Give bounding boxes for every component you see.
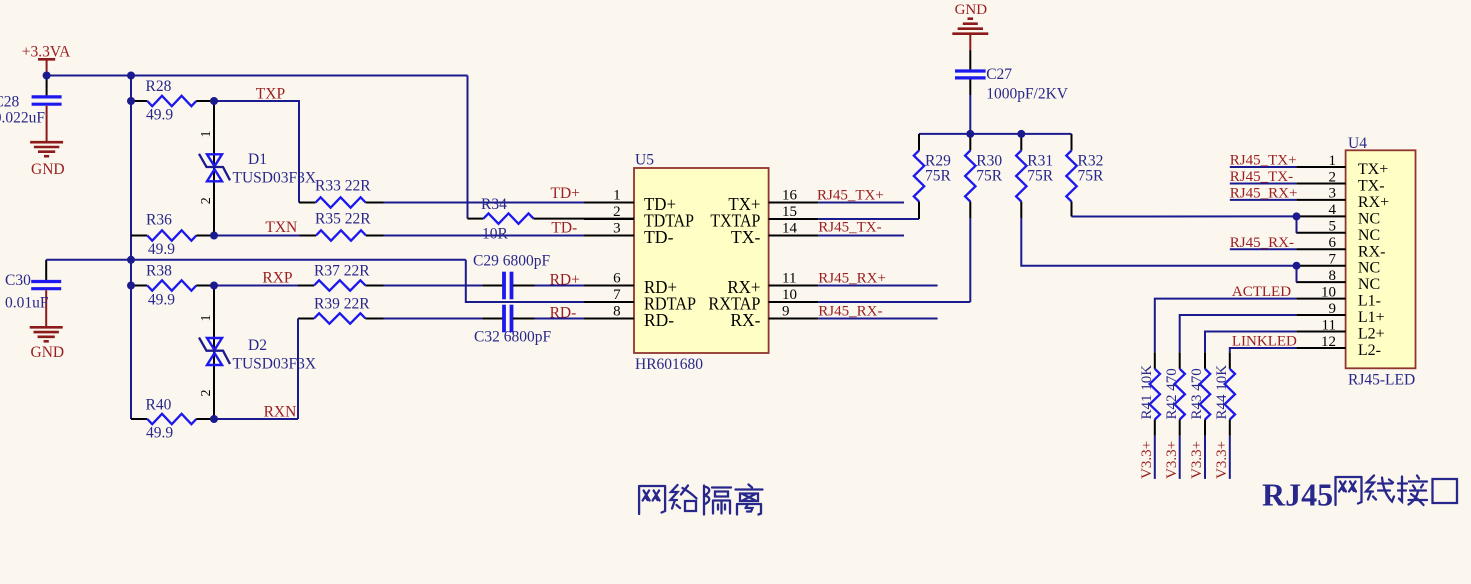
U5 pin 7 RDTAP — [584, 301, 634, 303]
svg-text:R38: R38 — [146, 262, 172, 279]
svg-text:14: 14 — [782, 220, 798, 236]
svg-text:TX-: TX- — [731, 227, 761, 247]
svg-text:R40: R40 — [146, 396, 172, 413]
svg-text:75R: 75R — [976, 168, 1003, 185]
svg-text:RXN: RXN — [264, 403, 297, 420]
svg-text:NC: NC — [1358, 210, 1380, 227]
U4 pin 7 NC — [1296, 265, 1345, 267]
svg-text:L1+: L1+ — [1358, 309, 1385, 326]
svg-text:RJ45_RX-: RJ45_RX- — [818, 303, 882, 319]
node RXN junction — [210, 415, 218, 423]
svg-text:RJ45_RX+: RJ45_RX+ — [818, 270, 886, 286]
capacitor C30 0.01uF — [45, 260, 47, 280]
svg-text:RJ45_TX-: RJ45_TX- — [818, 219, 881, 235]
svg-text:6: 6 — [1329, 235, 1337, 251]
U4 pin 2 TX- — [1296, 182, 1345, 184]
U5 pin 2 TDTAP — [584, 218, 634, 220]
U5 pin 10 RXTAP — [769, 301, 819, 303]
svg-text:C29 6800pF: C29 6800pF — [473, 253, 550, 270]
svg-text:2: 2 — [199, 390, 214, 397]
wire+node RJ45_RX- at U4 — [1230, 248, 1296, 250]
wire left vertical trunk — [130, 76, 132, 420]
svg-text:TX-: TX- — [1358, 177, 1385, 194]
resistor R29 75R — [918, 134, 920, 151]
svg-text:RX-: RX- — [730, 310, 760, 330]
svg-text:GND: GND — [31, 161, 65, 178]
node top wire / left trunk junction — [127, 72, 135, 80]
svg-text:1: 1 — [613, 187, 621, 203]
wire RJ45_RX- — [818, 318, 937, 320]
wire RXN riser — [297, 319, 299, 420]
svg-text:R34: R34 — [481, 196, 507, 213]
svg-text:L2+: L2+ — [1358, 326, 1385, 343]
wire RD- row — [384, 318, 483, 320]
resistor R33 22R — [299, 202, 316, 204]
node R38 left junction — [127, 282, 135, 290]
U5 pin 1 TD+ — [584, 201, 634, 203]
node +3.3VA / C28 junction — [43, 72, 51, 80]
wire ACTLED — [1155, 299, 1296, 353]
wire TD- — [384, 235, 585, 237]
svg-text:TUSD03F3X: TUSD03F3X — [233, 355, 317, 372]
power V3.3+ for R43 — [1204, 436, 1206, 479]
svg-text:10: 10 — [1321, 284, 1336, 300]
svg-text:RJ45: RJ45 — [1262, 477, 1333, 513]
ground GND under C28 — [30, 141, 63, 144]
U5 pin 15 TXTAP — [769, 218, 819, 220]
resistor R44 10K — [1229, 352, 1231, 369]
svg-text:5: 5 — [1329, 219, 1337, 235]
node TXP junction — [210, 97, 218, 105]
svg-text:2: 2 — [199, 197, 214, 204]
U5 pin 6 RD+ — [584, 284, 634, 286]
U4 pin 8 NC — [1296, 281, 1345, 283]
svg-text:12: 12 — [1321, 334, 1336, 350]
resistor R36 49.9 — [131, 235, 147, 237]
svg-text:49.9: 49.9 — [146, 425, 173, 442]
U4 pin 10 L1- — [1296, 298, 1345, 300]
U5 pin 14 TX- — [769, 234, 819, 236]
transistor D1 TVS diode TUSD03F3X — [213, 101, 215, 236]
svg-text:1: 1 — [1329, 153, 1337, 169]
svg-text:75R: 75R — [925, 168, 952, 185]
U5 pin 11 RX+ — [769, 284, 819, 286]
svg-text:1: 1 — [199, 131, 214, 138]
svg-text:RD+: RD+ — [550, 271, 580, 288]
svg-text:9: 9 — [1329, 301, 1337, 317]
resistor R37 22R — [298, 285, 314, 287]
wire TXP to R33 — [214, 101, 299, 203]
U4 pin 5 NC — [1296, 232, 1345, 234]
IC U5 ethernet transformer HR601680 — [634, 168, 769, 353]
svg-text:C30: C30 — [5, 272, 31, 289]
wire RXN — [214, 418, 298, 420]
svg-text:75R: 75R — [1078, 168, 1105, 185]
svg-text:RJ45_TX+: RJ45_TX+ — [817, 188, 884, 204]
resistor R28 49.9 — [131, 100, 147, 102]
svg-text:R36: R36 — [146, 211, 172, 228]
svg-text:C32 6800pF: C32 6800pF — [474, 329, 551, 346]
wire RJ45_TX+ — [818, 202, 904, 204]
svg-text:2: 2 — [613, 204, 621, 220]
svg-text:RD-: RD- — [550, 304, 577, 321]
svg-text:V3.3+: V3.3+ — [1139, 441, 1155, 479]
power V3.3+ for R41 — [1154, 436, 1156, 479]
U4 pin 12 L2- — [1296, 347, 1345, 349]
svg-text:NC: NC — [1358, 260, 1380, 277]
svg-text:R39 22R: R39 22R — [314, 296, 370, 313]
transistor D2 TVS diode TUSD03F3X — [213, 286, 215, 420]
resistor R31 75R — [1020, 134, 1022, 151]
svg-text:R28: R28 — [146, 78, 172, 95]
U4 pin 6 RX- — [1296, 248, 1345, 250]
svg-text:49.9: 49.9 — [148, 292, 175, 309]
resistor R34 10R — [467, 76, 469, 219]
wire+node RJ45_TX- at U4 — [1230, 182, 1296, 184]
wire LINKLED — [1230, 348, 1296, 352]
capacitor C29 6800pF — [482, 285, 503, 287]
svg-text:1: 1 — [199, 315, 214, 322]
svg-text:TUSD03F3X: TUSD03F3X — [233, 169, 317, 186]
svg-text:49.9: 49.9 — [148, 241, 175, 258]
svg-text:0.01uF: 0.01uF — [5, 295, 49, 312]
svg-text:4: 4 — [1329, 202, 1337, 218]
resistor R35 22R — [300, 235, 317, 237]
svg-text:NC: NC — [1358, 276, 1380, 293]
wire C30 to RDTAP — [46, 259, 466, 261]
wire+node RJ45_TX+ at U4 — [1230, 166, 1296, 168]
capacitor C32 6800pF — [482, 318, 503, 320]
wire+node RJ45_RX+ at U4 — [1230, 199, 1296, 201]
wire TD+ — [384, 202, 585, 204]
svg-text:1000pF/2KV: 1000pF/2KV — [986, 86, 1069, 103]
svg-text:L2-: L2- — [1358, 342, 1381, 359]
node R31 / termination bus junction — [1017, 130, 1025, 138]
resistor R30 75R — [969, 134, 971, 151]
resistor R39 22R — [298, 318, 314, 320]
svg-text:TD+: TD+ — [551, 185, 580, 202]
svg-text:RJ45_TX-: RJ45_TX- — [1230, 169, 1293, 185]
connector U4 RJ45-LED body — [1346, 150, 1416, 368]
svg-text:15: 15 — [782, 204, 797, 220]
wire TXTAP to R29 — [818, 218, 919, 220]
ground GND under C30 — [30, 326, 63, 329]
wire RJ45_TX- — [818, 235, 904, 237]
wire L2+ to R43 — [1205, 332, 1296, 353]
caption network isolation (Chinese) — [639, 485, 762, 515]
svg-text:NC: NC — [1358, 227, 1380, 244]
svg-text:2: 2 — [1329, 169, 1337, 185]
svg-text:10: 10 — [782, 287, 797, 303]
svg-text:6: 6 — [613, 270, 621, 286]
node U4 pins 7-8 junction — [1293, 262, 1301, 270]
svg-text:RXP: RXP — [262, 270, 292, 287]
svg-text:R37 22R: R37 22R — [314, 263, 370, 280]
U4 pin 11 L2+ — [1296, 331, 1345, 333]
svg-text:TXN: TXN — [265, 219, 297, 236]
svg-text:RJ45_TX+: RJ45_TX+ — [1230, 153, 1297, 169]
wire R32 to U4 pins 4,5 — [1072, 215, 1297, 217]
svg-text:7: 7 — [1329, 252, 1337, 268]
wire RJ45_RX+ — [818, 285, 937, 287]
svg-text:U4: U4 — [1348, 135, 1367, 152]
U4 pin 4 NC — [1296, 215, 1345, 217]
svg-text:10R: 10R — [482, 225, 509, 242]
U4 pin 9 L1+ — [1296, 314, 1345, 316]
wire L1+ to R42 — [1180, 315, 1297, 352]
svg-text:ACTLED: ACTLED — [1232, 284, 1291, 300]
wire R31 to U4 pins 7,8 — [1021, 218, 1296, 266]
svg-text:C28: C28 — [0, 94, 20, 111]
resistor R32 75R — [1071, 134, 1073, 151]
wire RXP — [214, 285, 298, 287]
U4 pin 1 TX+ — [1296, 166, 1345, 168]
power V3.3+ for R42 — [1179, 436, 1181, 479]
svg-text:9: 9 — [782, 303, 790, 319]
svg-text:U5: U5 — [635, 152, 654, 169]
wire termination bus — [919, 133, 1072, 135]
svg-text:3: 3 — [613, 220, 621, 236]
node R28 left junction — [127, 97, 135, 105]
resistor R38 49.9 — [131, 285, 147, 287]
svg-text:TX+: TX+ — [1358, 161, 1388, 178]
wire top horizontal from +3.3VA to R34 drop — [47, 75, 468, 77]
svg-text:D2: D2 — [248, 337, 267, 354]
U5 pin 3 TD- — [584, 234, 634, 236]
svg-text:R42 470: R42 470 — [1164, 368, 1180, 419]
svg-text:R44 10K: R44 10K — [1214, 365, 1230, 420]
svg-text:R33 22R: R33 22R — [315, 178, 371, 195]
svg-text:R35 22R: R35 22R — [315, 211, 371, 228]
svg-text:RJ45_RX+: RJ45_RX+ — [1230, 185, 1298, 201]
svg-text:7: 7 — [613, 287, 621, 303]
svg-text:RX+: RX+ — [1358, 194, 1389, 211]
svg-text:3: 3 — [1329, 186, 1337, 202]
capacitor C27 1000pF/2KV — [969, 50, 971, 70]
svg-text:GND: GND — [31, 344, 65, 361]
node U4 pins 4-5 junction — [1293, 212, 1301, 220]
svg-text:0.022uF: 0.022uF — [0, 110, 45, 127]
svg-text:V3.3+: V3.3+ — [1164, 441, 1180, 479]
resistor R42 470 — [1179, 352, 1181, 369]
svg-text:LINKLED: LINKLED — [1232, 333, 1297, 349]
wire TXN — [214, 235, 300, 237]
svg-text:C27: C27 — [986, 66, 1012, 83]
svg-text:R43 470: R43 470 — [1189, 368, 1205, 419]
svg-text:8: 8 — [613, 303, 621, 319]
svg-text:HR601680: HR601680 — [635, 356, 703, 373]
node C27 / termination bus junction — [966, 130, 974, 138]
svg-text:+3.3VA: +3.3VA — [22, 43, 71, 60]
svg-text:11: 11 — [782, 270, 796, 286]
svg-text:RJ45-LED: RJ45-LED — [1348, 372, 1415, 389]
svg-text:V3.3+: V3.3+ — [1189, 441, 1205, 479]
capacitor C28 0.022uF — [46, 76, 48, 96]
svg-text:R41 10K: R41 10K — [1139, 365, 1155, 420]
svg-text:RJ45_RX-: RJ45_RX- — [1230, 235, 1294, 251]
resistor R40 49.9 — [131, 418, 147, 420]
svg-text:V3.3+: V3.3+ — [1214, 441, 1230, 479]
svg-text:GND: GND — [955, 2, 988, 18]
svg-text:11: 11 — [1322, 317, 1336, 333]
svg-text:RX-: RX- — [1358, 243, 1386, 260]
U4 pin 3 RX+ — [1296, 199, 1345, 201]
svg-text:D1: D1 — [248, 151, 267, 168]
node RXP junction — [210, 282, 218, 290]
svg-text:8: 8 — [1329, 268, 1337, 284]
svg-text:L1-: L1- — [1358, 293, 1381, 310]
wire RXP to C29 — [384, 285, 483, 287]
U5 pin 16 TX+ — [769, 201, 819, 203]
svg-text:RD-: RD- — [644, 310, 674, 330]
svg-text:TD-: TD- — [551, 220, 577, 237]
power V3.3+ for R44 — [1229, 436, 1231, 479]
node TXN junction — [210, 232, 218, 240]
svg-text:75R: 75R — [1027, 168, 1054, 185]
resistor R43 470 — [1204, 352, 1206, 369]
wire RXTAP to R30 — [818, 301, 970, 303]
node C30 wire junction — [127, 256, 135, 264]
svg-text:16: 16 — [782, 187, 798, 203]
svg-text:49.9: 49.9 — [146, 107, 173, 124]
U5 pin 9 RX- — [769, 317, 819, 319]
U5 pin 8 RD- — [584, 317, 634, 319]
wire R30 to RXTAP — [969, 218, 971, 302]
svg-text:TD-: TD- — [644, 227, 674, 247]
resistor R41 10K — [1154, 352, 1156, 369]
